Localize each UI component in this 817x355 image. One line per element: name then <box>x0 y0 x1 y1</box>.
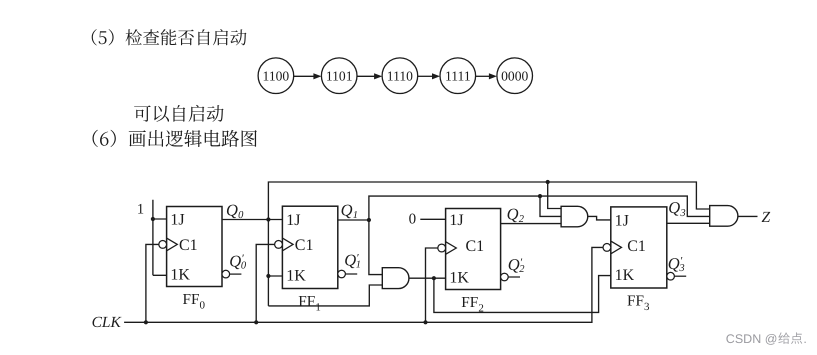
svg-text:Q2: Q2 <box>507 204 525 225</box>
wire Q0 branch down to FF1 1K <box>268 220 282 306</box>
wire complement output stub FF0 <box>230 273 242 275</box>
svg-text:FF0: FF0 <box>183 291 206 312</box>
state node 1111 <box>440 58 476 94</box>
junction node G0 output branch <box>432 276 436 280</box>
svg-text:1J: 1J <box>286 212 300 229</box>
FF1 clock bubble <box>275 241 283 249</box>
svg-text:0000: 0000 <box>501 69 528 84</box>
AND gate G0 <box>382 268 409 289</box>
FF0 complement output bubble <box>222 270 230 278</box>
wire Q1 from FF1 <box>338 219 369 221</box>
svg-text:Q3: Q3 <box>668 198 685 219</box>
wire Q0 lower feedback to AND G0 lower input <box>268 285 382 306</box>
node Q0 <box>266 217 270 221</box>
wire CLK riser to FF2 clock <box>426 248 438 322</box>
state node 1110 <box>382 58 418 94</box>
FF2 complement output bubble <box>501 273 509 281</box>
junction node at FF0 1J <box>151 217 155 221</box>
wire Q0 feedback top line to AND G2 <box>268 182 709 220</box>
svg-text:1101: 1101 <box>326 69 353 84</box>
svg-text:FF2: FF2 <box>461 294 484 315</box>
wire Q1 drop to AND G1 middle input <box>540 196 561 216</box>
svg-text:Q1: Q1 <box>341 200 358 221</box>
svg-text:1K: 1K <box>449 270 469 287</box>
svg-text:C1: C1 <box>627 238 646 255</box>
wire Q2 to AND G1 lower input <box>501 223 561 225</box>
watermark nickname glyphs <box>778 332 802 344</box>
svg-text:1110: 1110 <box>387 69 413 84</box>
FF3 complement output bubble <box>667 272 675 280</box>
wire Q1 drop to AND G0 upper input <box>369 220 382 275</box>
FF0 clock bubble <box>159 241 167 249</box>
wire complement output stub FF1 <box>345 273 357 275</box>
svg-text:FF1: FF1 <box>298 293 321 314</box>
FF1 clock edge triangle <box>282 238 293 251</box>
svg-text:Q0: Q0 <box>226 200 244 221</box>
FF2 clock edge triangle <box>446 242 457 255</box>
svg-text:Q′0: Q′0 <box>229 251 247 271</box>
junction node top line Q0 <box>546 180 550 184</box>
FF0 clock edge triangle <box>167 238 178 251</box>
svg-text:Z: Z <box>762 209 771 226</box>
junction node at FF1 1K <box>266 274 270 278</box>
wire complement output stub FF3 <box>674 275 686 277</box>
wire G0 output to FF2 1K <box>409 277 446 279</box>
state node 1101 <box>321 58 357 94</box>
svg-text:CSDN @: CSDN @ <box>726 332 778 346</box>
AND gate G2 <box>710 206 738 227</box>
state node 1100 <box>258 58 294 94</box>
wire G1 output to FF3 1J <box>588 216 611 220</box>
junction node CLK to FF0 <box>144 320 148 324</box>
junction node top line Q1 <box>538 194 542 198</box>
svg-text:FF3: FF3 <box>627 293 650 314</box>
svg-text:C1: C1 <box>295 237 314 254</box>
wire CLK riser to FF1 clock <box>256 244 274 322</box>
wire G2 output to Z <box>738 215 758 217</box>
state node 0000 <box>497 58 533 94</box>
svg-text:1J: 1J <box>170 212 184 229</box>
wire G0 output feedback to FF3 1K <box>434 276 611 313</box>
FF2 clock bubble <box>438 244 446 252</box>
flip-flop FF1 box <box>282 206 337 288</box>
AND gate G1 <box>561 206 588 227</box>
svg-text:CLK: CLK <box>92 314 122 331</box>
svg-text:1: 1 <box>137 202 144 218</box>
flip-flop FF0 box <box>167 207 222 287</box>
FF3 clock bubble <box>603 244 611 252</box>
text can self-start <box>134 105 223 122</box>
svg-text:C1: C1 <box>466 238 485 255</box>
flip-flop FF2 box <box>446 209 501 290</box>
wire Q0 from FF0 to FF1 1J <box>222 219 282 221</box>
wire Q1 feedback top line to AND G2 <box>369 196 710 220</box>
node Q1 <box>367 218 371 222</box>
svg-text:1111: 1111 <box>445 69 471 84</box>
text heading (6) draw logic circuit <box>92 130 256 147</box>
svg-text:C1: C1 <box>179 237 198 254</box>
FF1 complement output bubble <box>338 270 346 278</box>
wire CLK riser to FF0 clock <box>146 244 159 322</box>
svg-text:1J: 1J <box>449 212 463 229</box>
wire CLK distribution line <box>124 247 603 322</box>
svg-text:1K: 1K <box>170 267 190 284</box>
svg-text:0: 0 <box>409 212 417 228</box>
svg-text:1J: 1J <box>615 213 629 230</box>
svg-text:Q′1: Q′1 <box>344 251 361 271</box>
flip-flop FF3 box <box>611 207 667 288</box>
text heading (5) check self-start <box>92 29 247 45</box>
arrow 1111 to 0000 <box>476 73 497 79</box>
junction node CLK to FF1 <box>254 320 258 324</box>
svg-text:Q′3: Q′3 <box>668 254 685 274</box>
svg-text:1100: 1100 <box>263 69 290 84</box>
wire complement output stub FF2 <box>508 276 520 278</box>
svg-text:.: . <box>803 332 806 346</box>
arrow 1110 to 1111 <box>418 73 440 79</box>
FF3 clock edge triangle <box>611 241 622 254</box>
wire Q0 drop to AND G1 upper input <box>548 182 561 209</box>
wire constant 1 to FF0 1J and 1K <box>153 200 167 276</box>
svg-text:1K: 1K <box>286 267 306 284</box>
wire constant 0 to FF2 1J <box>420 218 445 220</box>
arrow 1101 to 1110 <box>357 73 382 79</box>
arrow 1100 to 1101 <box>294 73 322 79</box>
junction node CLK to FF2 <box>423 320 427 324</box>
svg-text:Q′2: Q′2 <box>508 255 526 275</box>
wire Q3 to AND G2 <box>667 222 710 224</box>
svg-text:1K: 1K <box>615 267 635 284</box>
